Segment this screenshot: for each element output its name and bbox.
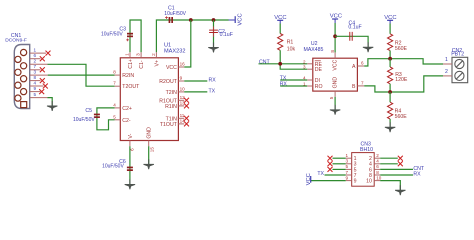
IC U2 MAX485 labels [304,41,324,53]
capacitor C4 [350,32,352,41]
capacitor C6 [127,167,133,171]
CN2 pin 2 stub [443,69,452,76]
svg-text:4: 4 [34,80,37,85]
svg-text:2: 2 [376,153,379,158]
U1 pin T1IN (11) [166,113,185,123]
CN1 hole p8 [15,82,21,88]
svg-text:8: 8 [376,170,379,175]
svg-text:B: B [352,84,356,90]
U1 pin R1OUT (12) [159,95,185,105]
svg-text:CNT: CNT [259,60,270,66]
CN1 pin 3 stub [30,69,48,75]
CN2 screw 1 [455,59,464,68]
CN1 hole p2 [21,63,27,69]
wire VCC to MAX232 pin16 [184,20,191,67]
wire CN3 pin1 nc [333,157,346,159]
wire CN3 pin2 nc [380,157,398,159]
U1 pin C1- (3) [136,52,146,69]
net label CNT at CN3 pin6 [380,166,425,172]
wire CN3 pin3 nc [333,163,346,165]
capacitor C4 labels [348,21,361,31]
svg-text:10uF/50V: 10uF/50V [101,31,123,37]
wire T2IN to TX label [184,88,215,94]
no-connect X pin1 [46,51,51,56]
ground under CN3 pin10 [395,185,405,195]
CN3 pin 1 [346,153,357,162]
svg-text:2: 2 [151,53,156,56]
wire R2OUT to RX label [184,78,216,84]
U2 pin DE (3) [303,65,323,74]
connector CN1 label [5,33,27,44]
connector CN2 PBT2 body [452,57,468,82]
ground under C4 [363,42,373,52]
svg-text:4: 4 [376,159,379,164]
wire VCC to U2 pin8 [334,23,336,52]
svg-text:10uF/50V: 10uF/50V [73,117,95,123]
svg-text:12: 12 [180,95,186,100]
svg-text:6: 6 [376,164,379,169]
svg-text:RO: RO [315,84,323,90]
net label TX at CN3 pin7 [317,171,345,177]
U1 pin C2- (5) [113,114,131,124]
no-connect X CN3 pin1 [328,156,333,161]
no-connect X pin9 [39,89,44,94]
svg-text:MAX485: MAX485 [304,47,324,53]
wire C5 loop pin4 to pin5 [97,108,115,130]
svg-text:11: 11 [180,113,185,118]
CN1 hole p9 [15,95,21,101]
svg-text:7: 7 [361,81,364,86]
no-connect X CN3 pin3 [328,161,333,166]
svg-text:10: 10 [180,86,186,91]
junction VCC/C4 [333,34,337,38]
wire V+ pin2 to VCC [156,20,228,52]
svg-text:560E: 560E [395,114,408,120]
U1 pin R2IN (8) [113,70,134,80]
svg-text:3: 3 [34,69,37,74]
svg-text:VCC: VCC [237,13,243,25]
wire GND15 to ground [148,146,150,164]
svg-text:RX: RX [413,172,421,178]
U1 pin V+ (2) [151,52,160,66]
CN1 hole p1 [21,49,27,55]
svg-text:R2IN: R2IN [122,73,134,79]
U1 pin T1OUT (14) [160,118,185,128]
IC U1 MAX232 labels [164,43,185,55]
junction A/R2/R3 [388,57,392,61]
IC U1 MAX232 body [120,58,178,141]
wire C2 branch [213,20,215,48]
CN2 pin 1 stub [443,57,452,64]
svg-text:V+: V+ [154,60,160,67]
ground under C6 [125,179,135,189]
no-connect X T1IN [184,116,189,121]
svg-text:1: 1 [445,57,448,63]
wire V- to C6 to ground [129,146,131,184]
svg-text:7: 7 [113,81,116,86]
wire U2 GND to ground [334,97,336,110]
wire C4 branch [335,36,368,47]
connector CN3 BH10 body [352,153,375,187]
svg-text:T2OUT: T2OUT [122,84,140,90]
capacitor C1 labels [164,5,186,17]
svg-text:TX: TX [209,88,216,94]
U1 pin R2OUT (9) [159,76,184,86]
CN3 pin 6 [369,164,380,173]
svg-text:9: 9 [180,76,183,81]
ground under R4 [385,122,395,132]
connector CN3 labels [360,142,373,153]
svg-text:3: 3 [303,65,306,70]
svg-text:TX: TX [317,171,324,177]
svg-text:2: 2 [34,59,37,64]
no-connect X pin4 [43,84,48,89]
svg-text:6: 6 [361,61,364,66]
svg-text:9: 9 [34,86,37,91]
svg-text:V-: V- [128,133,134,138]
junction CNT/R1 [278,62,282,66]
svg-text:RX: RX [280,82,288,88]
capacitor C3 labels [101,27,126,38]
wire CN1 pin2 to T2OUT [48,64,115,86]
svg-text:0.1uF: 0.1uF [220,32,233,38]
VCC supply top [229,13,244,25]
ground under U2 [330,105,340,115]
connector CN1 DCON9-F body [14,45,29,109]
svg-text:C1+: C1+ [128,59,134,69]
svg-text:PBT2: PBT2 [451,51,464,57]
CN1 pin 5 stub [30,92,48,98]
svg-text:6: 6 [34,53,37,58]
svg-text:VCC: VCC [332,59,338,70]
svg-text:BH10: BH10 [360,147,373,153]
svg-text:2: 2 [445,69,448,75]
svg-text:T1OUT: T1OUT [160,122,178,128]
junction C1/VCC16 [189,18,193,22]
CN1 pin 4 stub [30,80,44,86]
svg-text:9: 9 [354,179,357,185]
svg-text:U2: U2 [311,41,318,47]
svg-text:C5: C5 [85,108,92,114]
svg-text:C2-: C2- [122,118,131,124]
node CNT label [259,60,270,66]
U1 pin C2+ (4) [113,102,132,112]
U2 pin B (7) [352,81,364,90]
svg-text:7: 7 [346,170,349,175]
capacitor C1 plus [165,16,168,19]
wire B net [364,76,443,92]
svg-text:GND: GND [332,77,338,89]
svg-text:10k: 10k [287,46,296,52]
ground under C2 [208,43,218,53]
CN1 hole p7 [15,69,21,75]
no-connect X R1IN [184,103,189,108]
svg-text:10uF/50V: 10uF/50V [164,11,186,17]
svg-text:A: A [352,64,356,70]
wire A net [364,59,443,66]
net label TX to DI [280,76,308,82]
capacitor C6 labels [102,159,126,170]
svg-text:R2OUT: R2OUT [159,79,177,85]
CN1 hole p5 square [21,102,27,108]
no-connect X CN3 pin5 [328,167,333,172]
wire CN1 pin3 to R2IN [48,74,115,76]
CN3 pin 4 [369,159,380,168]
ground under U1 GND [144,159,154,169]
capacitor C2 lead [213,27,215,37]
no-connect X R1OUT [184,98,189,103]
capacitor C5 [94,114,100,118]
svg-text:8: 8 [34,75,37,80]
CN1 hole p3 [21,76,27,82]
U1 pin R1IN (13) [165,100,185,110]
resistor R2 [388,24,408,59]
svg-text:5: 5 [346,164,349,169]
no-connect X CN3 pin4 [398,161,403,166]
svg-text:5: 5 [34,92,37,97]
wire CN3 pin10 to ground [380,181,400,191]
svg-text:R1IN: R1IN [165,104,177,110]
capacitor C1 [169,17,173,23]
svg-text:3: 3 [136,53,141,56]
capacitor C3 [127,33,133,37]
svg-text:5: 5 [329,96,334,99]
no-connect X T1OUT [184,121,189,126]
svg-text:VCC: VCC [166,65,177,71]
CN1 pin 6 stub [30,53,41,59]
no-connect X CN3 pin2 [398,156,403,161]
svg-text:560E: 560E [395,46,408,52]
CN1 hole p6 [15,56,21,62]
CN3 pin 3 [346,159,357,168]
svg-text:0.1uF: 0.1uF [348,24,361,30]
CN3 pin 9 [346,175,357,184]
svg-text:5: 5 [113,114,116,119]
VCC supply above U2 [330,14,342,23]
CN1 pin 1 stub [30,47,46,53]
svg-text:GND: GND [147,127,153,139]
svg-text:DCON9-F: DCON9-F [5,38,27,44]
U2 pin RO (1) [303,82,323,91]
U2 pin GND (5) [329,77,339,100]
svg-text:10: 10 [376,175,382,180]
wire CN3 pin5 nc [333,168,346,170]
no-connect X pin8 [40,78,45,83]
U1 pin T2IN (10) [166,86,186,96]
net label RX to RO [280,82,308,88]
svg-text:9: 9 [346,175,349,180]
junction C2 [212,18,216,22]
resistor R3 [388,59,408,92]
svg-text:C1-: C1- [139,60,145,69]
svg-text:MAX232: MAX232 [164,48,185,54]
U1 pin GND (15) [147,127,155,152]
svg-text:7: 7 [34,64,37,69]
U1 pin VCC (16) [166,62,185,72]
svg-text:T2IN: T2IN [166,90,177,96]
U1 pin V- (6) [128,133,135,150]
svg-text:3: 3 [346,159,349,164]
net label RX at CN3 pin8 [380,172,421,178]
CN3 pin 7 [346,170,357,179]
svg-text:8: 8 [113,70,116,75]
connector CN2 labels [451,48,464,57]
resistor R4 [388,92,408,127]
capacitor C2 labels [218,29,233,38]
svg-text:R1: R1 [287,40,294,46]
svg-text:10uF/50V: 10uF/50V [102,164,124,170]
svg-text:4: 4 [303,76,306,81]
svg-text:2: 2 [303,59,306,64]
CN3 pin 5 [346,164,357,173]
wire C3 loop pin1 to pin3 [130,20,141,52]
svg-text:RX: RX [209,78,217,84]
svg-text:8: 8 [330,50,335,53]
VCC supply left of CN3 [306,173,312,185]
svg-text:16: 16 [180,62,186,67]
U2 pin DI (4) [303,76,320,85]
VCC supply above R1 [274,15,286,24]
CN1 hole p4 [21,89,27,95]
resistor R1 [278,24,296,64]
CN1 pin 2 stub [30,59,48,65]
CN3 pin 2 [369,153,380,162]
no-connect X pin7 [40,67,45,72]
svg-text:VCC: VCC [306,173,312,185]
VCC supply above R2 [384,15,396,24]
U2 pin RE (2) [303,59,323,68]
U2 pin A (6) [352,61,364,70]
svg-text:1: 1 [303,82,306,87]
CN1 pin 9 stub [30,86,41,92]
svg-text:15: 15 [149,147,154,153]
CN1 pin 8 stub [30,75,41,81]
no-connect X pin6 [40,56,45,61]
junction B/R3/R4 [388,90,392,94]
capacitor C2 [209,30,218,32]
svg-text:DE: DE [315,67,323,73]
CN1 pin 7 stub [30,64,41,70]
CN3 pin 8 [369,170,380,179]
svg-text:13: 13 [180,100,186,105]
svg-text:4: 4 [113,102,116,107]
wire CN3 pin4 nc [380,163,398,165]
svg-text:14: 14 [180,118,186,123]
IC U2 MAX485 body [313,58,358,91]
capacitor C5 labels [73,108,95,123]
wire CN1 pin5 to ground [47,98,52,106]
ground under CN1 [47,101,57,111]
svg-text:120E: 120E [395,77,408,83]
svg-text:10: 10 [366,179,372,185]
svg-text:C2+: C2+ [122,106,132,112]
wire CNT to RE/DE [259,64,308,69]
CN2 screw 2 [455,71,464,80]
U2 pin VCC (8) [330,50,338,71]
U1 pin T2OUT (7) [113,81,140,91]
svg-text:1: 1 [125,53,130,56]
U1 pin C1+ (1) [125,52,135,69]
CN3 pin 10 [366,175,382,184]
svg-text:1: 1 [346,153,349,158]
wire CN3 pin9 to VCC [311,180,346,182]
svg-text:1: 1 [34,47,37,52]
capacitor C3 plus [126,39,129,42]
